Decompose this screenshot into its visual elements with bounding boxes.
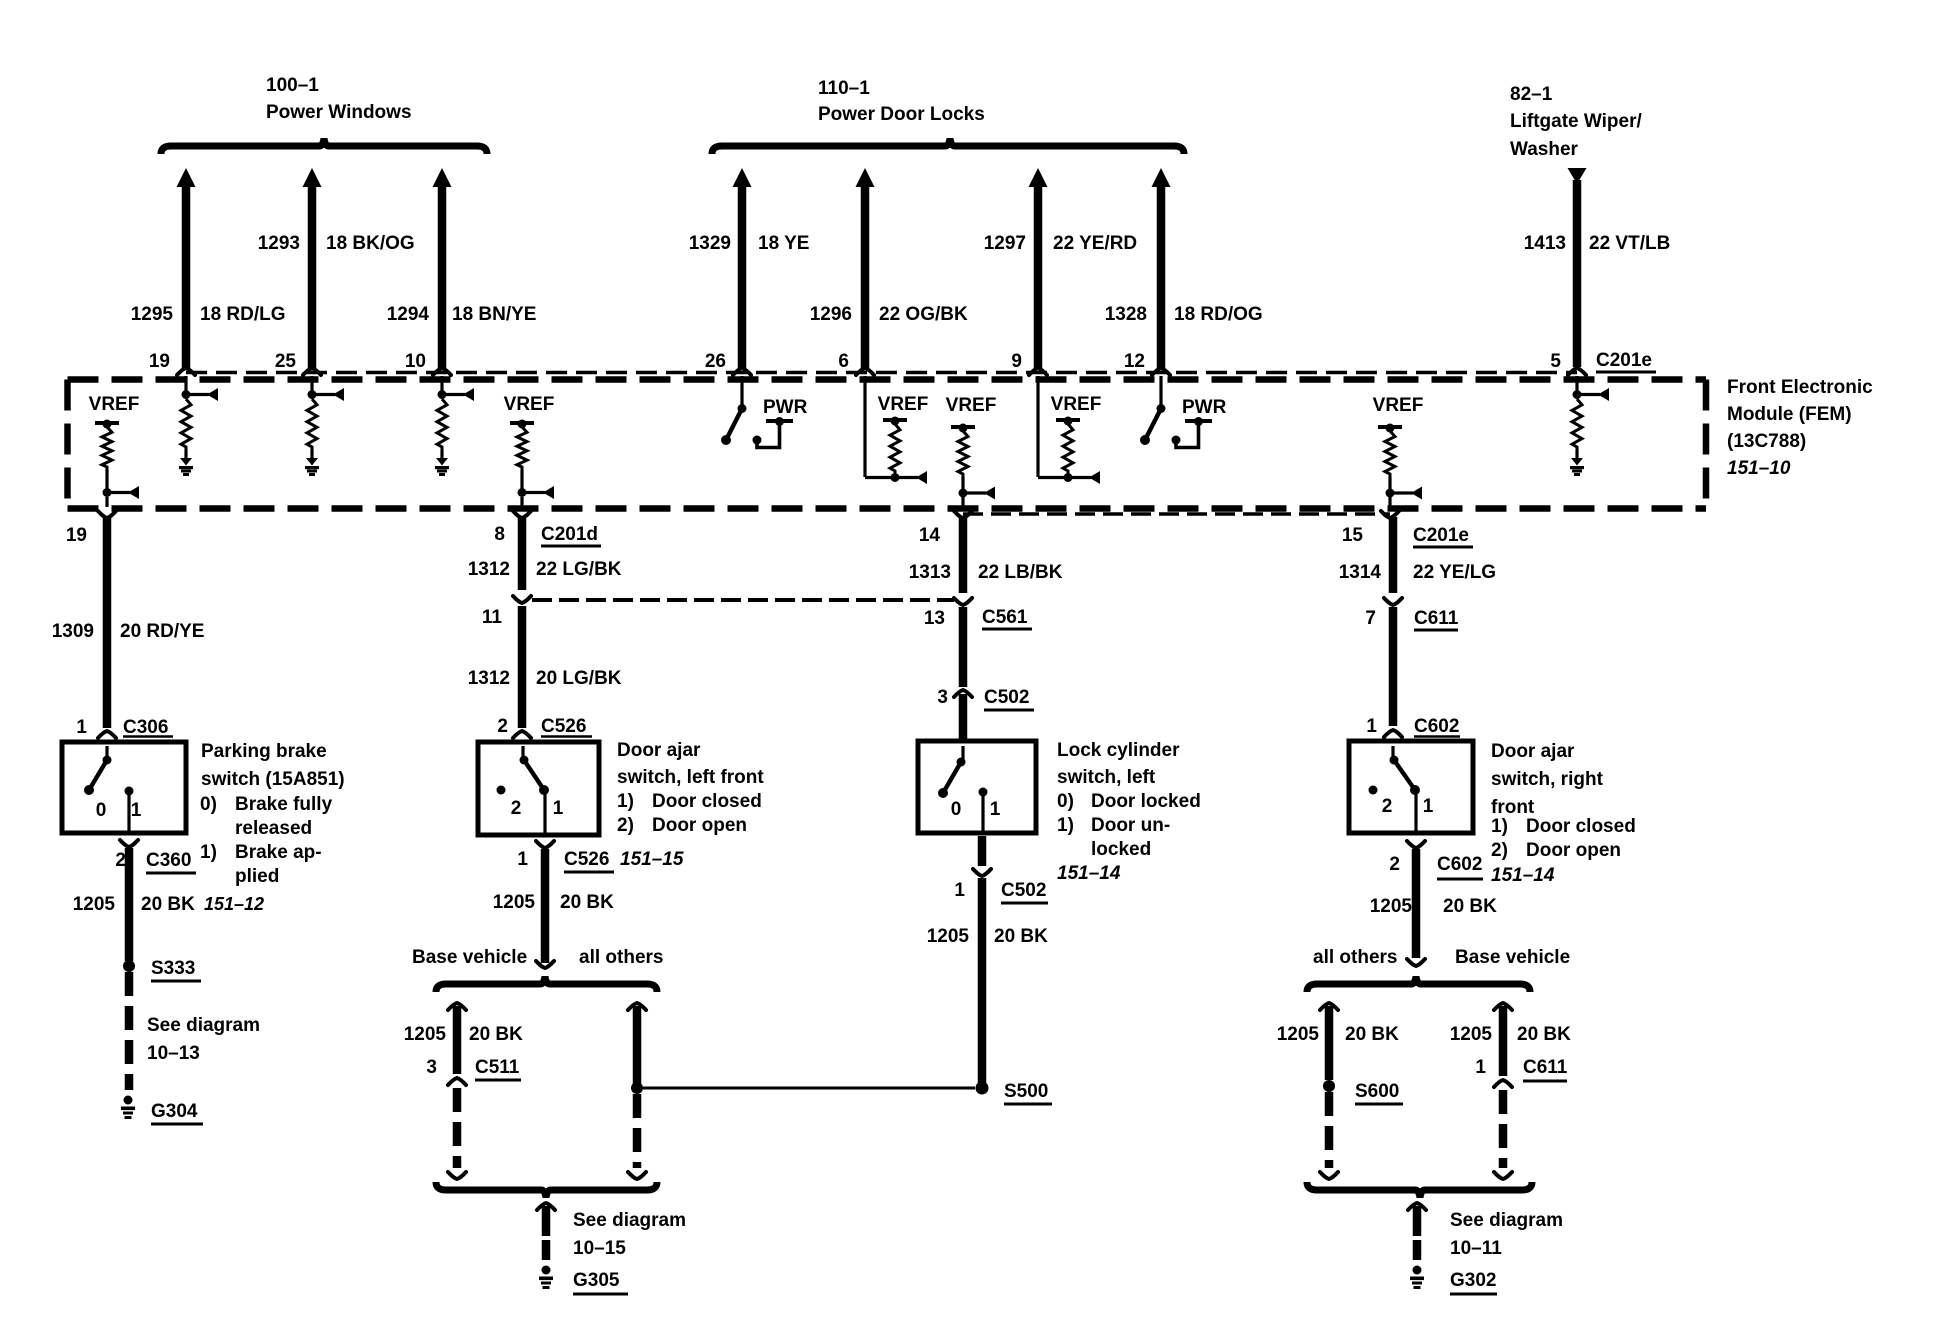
svg-text:2: 2 (511, 798, 522, 819)
svg-text:Lock cylinder: Lock cylinder (1057, 740, 1180, 761)
svg-text:10–11: 10–11 (1450, 1238, 1502, 1259)
svg-text:1293: 1293 (258, 233, 300, 254)
svg-text:switch (15A851): switch (15A851) (201, 769, 345, 790)
svg-text:1205: 1205 (73, 894, 116, 915)
svg-text:100–1: 100–1 (266, 75, 319, 96)
svg-text:switch, left: switch, left (1057, 767, 1156, 788)
svg-text:C201e: C201e (1596, 350, 1652, 371)
svg-text:151–12: 151–12 (204, 894, 264, 914)
svg-text:C526: C526 (541, 716, 586, 737)
svg-text:1: 1 (1475, 1057, 1486, 1078)
svg-text:1: 1 (131, 800, 142, 821)
svg-text:20 RD/YE: 20 RD/YE (120, 621, 204, 642)
svg-text:See diagram: See diagram (573, 1210, 686, 1231)
svg-text:VREF: VREF (504, 394, 555, 415)
svg-text:20 BK: 20 BK (1345, 1024, 1399, 1045)
svg-text:1: 1 (1423, 796, 1434, 817)
svg-text:C611: C611 (1523, 1057, 1568, 1078)
svg-text:C526: C526 (564, 849, 609, 870)
svg-text:20 BK: 20 BK (560, 892, 614, 913)
svg-text:10–13: 10–13 (147, 1043, 200, 1064)
svg-text:C502: C502 (984, 687, 1029, 708)
svg-text:22 LG/BK: 22 LG/BK (536, 559, 622, 580)
svg-text:C502: C502 (1001, 880, 1046, 901)
svg-text:151–14: 151–14 (1057, 863, 1121, 884)
svg-text:18 RD/LG: 18 RD/LG (200, 304, 286, 325)
svg-text:PWR: PWR (763, 397, 808, 418)
svg-text:front: front (1491, 797, 1535, 818)
svg-text:1312: 1312 (468, 559, 510, 580)
svg-text:7: 7 (1365, 608, 1376, 629)
svg-text:S333: S333 (151, 958, 195, 979)
svg-text:all others: all others (579, 947, 663, 968)
svg-text:3: 3 (937, 687, 948, 708)
svg-text:plied: plied (235, 866, 279, 887)
svg-text:1: 1 (954, 880, 965, 901)
svg-text:Door closed: Door closed (652, 791, 762, 812)
svg-text:20 LG/BK: 20 LG/BK (536, 668, 622, 689)
svg-text:10: 10 (405, 351, 426, 372)
svg-text:VREF: VREF (89, 394, 140, 415)
svg-text:26: 26 (705, 351, 726, 372)
svg-text:18 YE: 18 YE (758, 233, 809, 254)
svg-text:18 BN/YE: 18 BN/YE (452, 304, 536, 325)
svg-text:VREF: VREF (878, 394, 929, 415)
svg-text:22 LB/BK: 22 LB/BK (978, 562, 1063, 583)
svg-text:3: 3 (426, 1057, 437, 1078)
svg-text:25: 25 (275, 351, 297, 372)
svg-text:C360: C360 (146, 850, 191, 871)
svg-text:20 BK: 20 BK (141, 894, 195, 915)
svg-text:C561: C561 (982, 607, 1028, 628)
svg-text:1205: 1205 (1450, 1024, 1493, 1045)
svg-text:VREF: VREF (946, 395, 997, 416)
svg-text:C611: C611 (1414, 608, 1459, 629)
svg-text:all others: all others (1313, 947, 1397, 968)
svg-text:(13C788): (13C788) (1727, 431, 1806, 452)
svg-text:Door un-: Door un- (1091, 815, 1170, 836)
svg-text:Door ajar: Door ajar (1491, 741, 1575, 762)
svg-text:1328: 1328 (1105, 304, 1147, 325)
svg-text:20 BK: 20 BK (1517, 1024, 1571, 1045)
svg-text:12: 12 (1124, 351, 1145, 372)
svg-text:1): 1) (200, 842, 217, 863)
svg-text:Power Door Locks: Power Door Locks (818, 104, 985, 125)
svg-text:Module (FEM): Module (FEM) (1727, 404, 1852, 425)
svg-text:0): 0) (200, 794, 217, 815)
svg-text:Base vehicle: Base vehicle (1455, 947, 1570, 968)
svg-text:8: 8 (494, 524, 505, 545)
svg-text:C602: C602 (1414, 716, 1459, 737)
svg-text:1295: 1295 (131, 304, 174, 325)
svg-text:1: 1 (76, 717, 87, 738)
svg-text:22 VT/LB: 22 VT/LB (1589, 233, 1670, 254)
svg-text:151–14: 151–14 (1491, 865, 1555, 886)
svg-text:1): 1) (617, 791, 634, 812)
svg-text:Door open: Door open (1526, 840, 1621, 861)
svg-text:1294: 1294 (387, 304, 430, 325)
svg-text:18 BK/OG: 18 BK/OG (326, 233, 415, 254)
svg-text:PWR: PWR (1182, 397, 1227, 418)
svg-text:14: 14 (919, 525, 941, 546)
svg-text:1): 1) (1057, 815, 1074, 836)
svg-text:5: 5 (1550, 351, 1561, 372)
svg-text:18 RD/OG: 18 RD/OG (1174, 304, 1263, 325)
svg-text:released: released (235, 818, 312, 839)
svg-text:22 OG/BK: 22 OG/BK (879, 304, 968, 325)
svg-text:Door closed: Door closed (1526, 816, 1636, 837)
svg-text:Door ajar: Door ajar (617, 740, 701, 761)
svg-text:1413: 1413 (1524, 233, 1566, 254)
svg-text:S500: S500 (1004, 1081, 1048, 1102)
svg-text:0: 0 (951, 799, 962, 820)
svg-text:2): 2) (1491, 840, 1508, 861)
svg-text:10–15: 10–15 (573, 1238, 626, 1259)
svg-text:S600: S600 (1355, 1081, 1399, 1102)
svg-text:82–1: 82–1 (1510, 84, 1553, 105)
svg-text:13: 13 (924, 608, 945, 629)
svg-text:C201e: C201e (1413, 525, 1469, 546)
svg-text:1205: 1205 (1277, 1024, 1320, 1045)
svg-text:C306: C306 (123, 717, 168, 738)
svg-text:151–15: 151–15 (620, 849, 684, 870)
svg-text:Front Electronic: Front Electronic (1727, 377, 1873, 398)
svg-text:Liftgate Wiper/: Liftgate Wiper/ (1510, 111, 1642, 132)
svg-text:1): 1) (1491, 816, 1508, 837)
svg-text:19: 19 (66, 525, 87, 546)
svg-text:1329: 1329 (689, 233, 731, 254)
svg-text:22 YE/RD: 22 YE/RD (1053, 233, 1137, 254)
svg-text:1205: 1205 (493, 892, 536, 913)
svg-text:C511: C511 (475, 1057, 520, 1078)
svg-text:See diagram: See diagram (1450, 1210, 1563, 1231)
svg-text:2: 2 (1389, 854, 1400, 875)
svg-text:1205: 1205 (404, 1024, 447, 1045)
svg-text:19: 19 (149, 351, 170, 372)
svg-text:0): 0) (1057, 791, 1074, 812)
svg-text:20 BK: 20 BK (469, 1024, 523, 1045)
svg-text:Door locked: Door locked (1091, 791, 1201, 812)
svg-text:Brake ap-: Brake ap- (235, 842, 322, 863)
svg-text:G305: G305 (573, 1270, 620, 1291)
svg-text:110–1: 110–1 (818, 78, 870, 99)
svg-text:22 YE/LG: 22 YE/LG (1413, 562, 1496, 583)
svg-text:Parking brake: Parking brake (201, 741, 327, 762)
svg-text:1205: 1205 (1370, 896, 1413, 917)
svg-text:20 BK: 20 BK (994, 926, 1048, 947)
svg-text:VREF: VREF (1373, 395, 1424, 416)
svg-text:15: 15 (1342, 525, 1364, 546)
svg-text:151–10: 151–10 (1727, 458, 1791, 479)
svg-text:1205: 1205 (927, 926, 970, 947)
svg-text:1: 1 (1366, 716, 1377, 737)
svg-text:2: 2 (115, 850, 126, 871)
svg-text:2): 2) (617, 815, 634, 836)
svg-text:1: 1 (517, 849, 528, 870)
svg-text:VREF: VREF (1051, 394, 1102, 415)
svg-text:2: 2 (1382, 796, 1393, 817)
svg-text:Power Windows: Power Windows (266, 102, 412, 123)
svg-text:G304: G304 (151, 1101, 198, 1122)
svg-text:Base vehicle: Base vehicle (412, 947, 527, 968)
svg-text:Washer: Washer (1510, 139, 1579, 160)
svg-text:C602: C602 (1437, 854, 1482, 875)
svg-text:1: 1 (553, 798, 564, 819)
svg-text:0: 0 (96, 800, 107, 821)
svg-text:1297: 1297 (984, 233, 1026, 254)
svg-text:11: 11 (482, 607, 503, 628)
svg-text:1313: 1313 (909, 562, 951, 583)
svg-text:1: 1 (990, 799, 1001, 820)
svg-text:See diagram: See diagram (147, 1015, 260, 1036)
svg-text:1314: 1314 (1339, 562, 1382, 583)
svg-text:G302: G302 (1450, 1270, 1496, 1291)
svg-text:locked: locked (1091, 839, 1151, 860)
svg-text:2: 2 (497, 716, 508, 737)
svg-text:6: 6 (838, 351, 849, 372)
svg-text:switch, right: switch, right (1491, 769, 1604, 790)
svg-text:1296: 1296 (810, 304, 852, 325)
svg-text:9: 9 (1011, 351, 1022, 372)
svg-text:1312: 1312 (468, 668, 510, 689)
svg-text:switch, left front: switch, left front (617, 767, 764, 788)
svg-text:Brake fully: Brake fully (235, 794, 333, 815)
svg-text:20 BK: 20 BK (1443, 896, 1497, 917)
svg-text:Door open: Door open (652, 815, 747, 836)
svg-text:1309: 1309 (52, 621, 94, 642)
svg-text:C201d: C201d (541, 524, 598, 545)
